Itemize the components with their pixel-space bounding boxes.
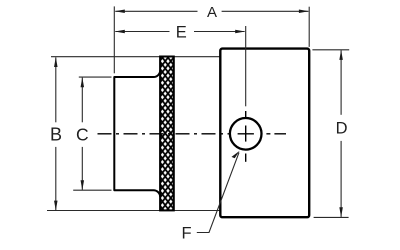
label B	[50, 124, 62, 144]
label A	[207, 4, 217, 21]
main body (large cylinder, dia D)	[220, 49, 309, 218]
D top extension line	[312, 49, 349, 51]
sleeve bottom edge (dia B) with B bottom extension line	[47, 210, 220, 212]
hole crosshair center marks	[238, 126, 254, 142]
label E	[176, 23, 187, 41]
svg-text:E: E	[176, 23, 187, 41]
sleeve top edge (dia B) with B top extension line	[51, 56, 220, 58]
D bottom extension line	[314, 216, 349, 218]
knurled ring	[160, 57, 174, 211]
dimension E line	[115, 30, 245, 34]
C top extension line	[79, 76, 112, 78]
dimension A line	[115, 10, 309, 14]
A left extension line	[113, 6, 115, 73]
C bottom extension line	[73, 189, 111, 191]
dimension C line	[81, 77, 85, 190]
port hole circle	[230, 118, 262, 150]
dimension D line	[339, 50, 343, 217]
svg-text:F: F	[181, 224, 191, 242]
svg-text:B: B	[50, 124, 62, 144]
label F	[181, 224, 191, 242]
svg-text:C: C	[76, 125, 89, 145]
svg-text:A: A	[207, 4, 217, 21]
label D	[336, 120, 348, 138]
label C	[76, 125, 89, 145]
dimension B line	[54, 57, 58, 211]
F leader line	[197, 151, 240, 233]
A right extension line	[308, 7, 310, 47]
hole vertical center line / E extension line	[245, 26, 247, 162]
small cylinder (pilot section, dia C)	[114, 70, 160, 197]
horizontal center line	[98, 133, 287, 135]
svg-text:D: D	[336, 120, 348, 138]
